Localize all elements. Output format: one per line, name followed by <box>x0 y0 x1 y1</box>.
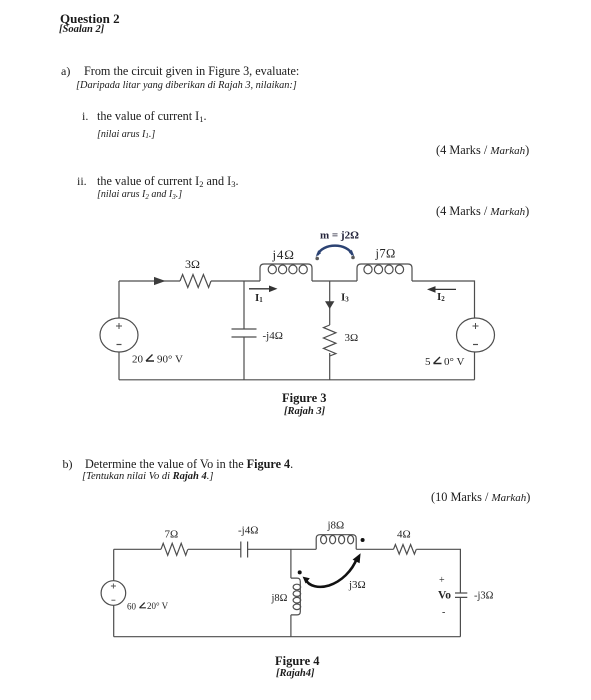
wire: fig3 top-left from source to resistor <box>119 280 180 282</box>
svg-text:60: 60 <box>127 602 137 612</box>
V1 minus sign <box>117 344 122 346</box>
svg-text:20: 20 <box>132 354 144 366</box>
wire: fig4 middle branch upper <box>290 549 292 578</box>
svg-text:4Ω: 4Ω <box>397 529 411 541</box>
wire: fig4 right rail below Vo cap <box>459 597 461 636</box>
inductor j8ohm vertical fig4 <box>291 578 301 615</box>
label 20 angle 90 V <box>132 354 183 366</box>
svg-text:m = j2Ω: m = j2Ω <box>320 230 359 242</box>
svg-text:0° V: 0° V <box>444 356 464 368</box>
V3 minus sign fig4 <box>111 599 115 601</box>
wire: fig4 middle branch lower <box>290 615 292 637</box>
V3 plus sign fig4 <box>111 584 116 589</box>
wire: fig3 left rail below source <box>118 352 120 380</box>
svg-text:-j3Ω: -j3Ω <box>474 591 494 602</box>
heading <box>60 11 120 27</box>
mutual coupling arrow j3 fig4 <box>303 553 361 587</box>
svg-text:I3: I3 <box>341 292 349 304</box>
svg-text:j7Ω: j7Ω <box>375 247 396 261</box>
source V2 5V fig3 circle <box>457 318 495 352</box>
wire: fig3 middle branch upper <box>329 281 331 325</box>
svg-text:I2: I2 <box>437 291 445 303</box>
current arrow I1 <box>249 286 278 293</box>
wire: fig3 top between 3ohm resistor and node A <box>211 280 260 282</box>
wire: fig4 bottom rail <box>114 636 461 638</box>
part a <box>61 64 70 79</box>
svg-text:I1: I1 <box>255 292 263 304</box>
figure 3 caption <box>282 391 327 406</box>
svg-text:5: 5 <box>425 356 431 368</box>
mutual coupling arc m=j2 (blue) <box>316 246 355 257</box>
svg-text:+: + <box>439 575 445 586</box>
wire: fig4 top between 7ohm and cap <box>188 548 241 550</box>
svg-text:3Ω: 3Ω <box>345 332 359 344</box>
resistor R 3ohm vertical fig3 <box>324 325 336 356</box>
wire: fig3 capacitor branch lower <box>243 337 245 380</box>
coupling dot right fig3 <box>351 256 355 260</box>
wire: fig3 top between coils (node B) <box>312 280 357 282</box>
current direction arrow on top-left wire <box>154 277 166 285</box>
current arrow I3 <box>325 301 334 309</box>
label 60 angle 20 V <box>127 601 169 612</box>
figure 4 caption <box>275 654 320 669</box>
capacitor C -j4ohm fig3 <box>232 329 257 337</box>
source 60V fig4 circle <box>101 581 126 606</box>
svg-text:j8Ω: j8Ω <box>327 520 345 532</box>
coupling dot fig4 top (right of horizontal coil) <box>361 538 365 542</box>
coupling dot left fig3 <box>315 257 319 261</box>
svg-text:j8Ω: j8Ω <box>271 593 288 604</box>
inductor L2 j7ohm fig3 <box>357 264 412 281</box>
wire: fig4 top between coil and 4ohm <box>356 548 393 550</box>
svg-text:j3Ω: j3Ω <box>348 579 366 591</box>
wire: fig3 bottom rail <box>119 379 475 381</box>
wire: fig4 top between cap and node <box>248 548 317 550</box>
V2 minus sign <box>473 344 478 346</box>
resistor 7ohm fig4 <box>161 543 188 555</box>
wire: fig3 right rail below source <box>474 352 476 380</box>
V1 plus sign <box>116 323 122 329</box>
svg-text:20° V: 20° V <box>147 601 169 611</box>
resistor 4ohm fig4 <box>394 545 417 555</box>
svg-text:-j4Ω: -j4Ω <box>263 330 283 342</box>
capacitor Vo -j3ohm fig4 <box>455 593 467 597</box>
svg-text:90° V: 90° V <box>157 354 183 366</box>
V2 plus sign <box>473 323 479 329</box>
svg-text:-: - <box>442 607 445 618</box>
inductor L1 j4ohm fig3 <box>260 264 312 281</box>
wire: fig4 top-right corner down to Vo cap <box>416 549 460 593</box>
source V1 20V fig3 circle <box>100 318 138 352</box>
capacitor -j4ohm fig4 <box>241 542 248 558</box>
wire: fig4 left rail above source <box>113 549 115 580</box>
coupling dot fig4 left (above vertical coil) <box>298 570 302 574</box>
wire: fig3 middle branch lower <box>329 353 331 380</box>
svg-text:7Ω: 7Ω <box>165 529 179 541</box>
resistor R 3ohm horizontal fig3 <box>180 275 211 288</box>
labels fig3 <box>132 230 464 369</box>
inductor j8ohm horizontal fig4 <box>316 535 356 550</box>
svg-text:3Ω: 3Ω <box>185 257 200 271</box>
labels fig4 <box>127 520 494 619</box>
wire: fig3 left rail <box>118 281 120 318</box>
current arrow I2 <box>427 286 456 293</box>
svg-text:-j4Ω: -j4Ω <box>238 525 258 537</box>
svg-text:j4Ω: j4Ω <box>272 247 295 262</box>
wire: fig3 top-right from coil j7 to right rail <box>412 281 475 318</box>
svg-text:Vo: Vo <box>438 590 451 602</box>
label 5 angle 0 V <box>425 356 464 368</box>
wire: fig4 left rail below source <box>113 605 115 636</box>
part b <box>63 457 73 472</box>
wire: fig4 top-left from source to 7ohm <box>114 548 161 550</box>
wire: fig3 capacitor branch upper <box>243 281 245 329</box>
